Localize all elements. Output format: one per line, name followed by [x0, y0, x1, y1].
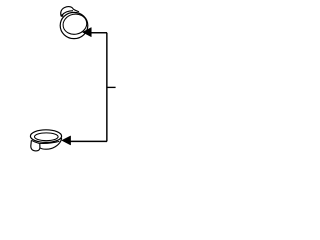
top loop twist fold inner edge [62, 11, 73, 15]
bottom band outer ellipse [30, 130, 61, 143]
wire bottom horizontal [70, 140, 107, 142]
bottom band mid edge [40, 141, 60, 143]
top loop inner ellipse [61, 12, 88, 37]
arrowhead into top loop [83, 28, 92, 37]
bottom band fold tab [31, 140, 40, 151]
top loop twist knot [61, 14, 64, 17]
bottom band inner ellipse [35, 133, 59, 141]
wire right vertical [106, 33, 108, 142]
wire top horizontal [91, 32, 107, 34]
arrowhead into bottom band [62, 136, 71, 145]
top loop twist fold outer curl [61, 7, 79, 17]
bottom band fold tab top edge [31, 140, 39, 143]
top loop outer circle [60, 12, 88, 38]
bottom band front wall [40, 138, 62, 149]
tick on vertical wire [107, 86, 116, 88]
